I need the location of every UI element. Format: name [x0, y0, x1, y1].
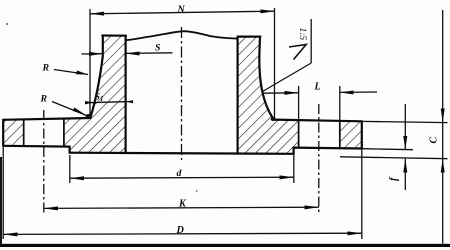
- L extension line left: [298, 86, 300, 120]
- arrow R lower leader: [73, 108, 87, 116]
- R leader lower: [52, 102, 87, 116]
- bore wall left: [124, 36, 126, 153]
- d extension line left: [69, 155, 71, 183]
- f dimension line lower shaft: [404, 159, 406, 190]
- neck outer wall left (vertical + 1:5 taper): [91, 36, 103, 117]
- centre line (dash-dot): [181, 27, 183, 160]
- flange bottom face right: [294, 147, 362, 150]
- flange top face right: [274, 120, 362, 122]
- svg-text:f: f: [389, 176, 400, 181]
- bolt hole centre line right (dash-dot): [318, 104, 320, 213]
- svg-text:1:5: 1:5: [297, 28, 307, 41]
- arrow N right: [261, 9, 275, 13]
- D dimension line: [3, 233, 362, 234]
- D extension line right: [361, 150, 363, 240]
- photo scan left dark edge: [0, 157, 2, 244]
- bore wall right: [237, 37, 239, 154]
- arrow N left: [90, 12, 104, 16]
- svg-text:S: S: [155, 43, 161, 54]
- svg-text:R: R: [42, 63, 50, 74]
- speck top left: [6, 23, 8, 25]
- taper leader line: [263, 63, 312, 92]
- D extension line left: [2, 147, 4, 239]
- bolt hole right: left edge: [298, 121, 300, 148]
- arrow d right: [280, 175, 294, 179]
- taper symbol reference line: [310, 19, 312, 63]
- arrow K left: [44, 206, 58, 210]
- speck mid lower: [196, 190, 198, 192]
- arrow C bottom (points up): [441, 159, 445, 173]
- arrow f top (points down): [403, 136, 407, 150]
- flange bottom face left: [3, 145, 69, 148]
- raised face bottom: [70, 153, 294, 154]
- hatched section: right flange strip: [340, 121, 362, 149]
- neck outer wall right (vertical + 1:5 taper curve): [259, 37, 273, 120]
- L dimension line left part: [262, 92, 299, 94]
- d extension line right: [293, 155, 295, 183]
- raised face step left: [68, 147, 70, 153]
- C extension line top: [362, 121, 448, 122]
- photo scan bottom dark band: [0, 244, 450, 247]
- hatched section: left flange strip: [3, 120, 24, 146]
- fillet blob right hub base: [271, 117, 276, 121]
- fillet blob left hub base: [86, 114, 92, 118]
- L extension line right: [339, 86, 341, 121]
- bolt hole left: left edge: [23, 120, 25, 146]
- arrow D right: [348, 231, 362, 235]
- flange top face left: [3, 118, 90, 120]
- svg-text:N: N: [177, 5, 186, 16]
- hatched section: left hub/ring between bolt hole and bore: [64, 36, 126, 154]
- break wavy line at weld end: [126, 31, 238, 40]
- svg-text:L: L: [314, 82, 321, 93]
- arrow K right: [305, 205, 319, 209]
- taper symbol glyph: [289, 45, 306, 60]
- arrow S left (points right): [89, 52, 103, 56]
- S1 dimension line: [89, 102, 131, 103]
- neck wall top edge left: [102, 34, 126, 36]
- arrow L left (points right): [285, 91, 299, 95]
- N extension line right: [274, 8, 276, 120]
- d dimension line: [70, 177, 294, 178]
- arrow C top (points down): [441, 109, 445, 123]
- arrow S1 right (points left): [126, 100, 133, 103]
- K dimension line: [44, 207, 319, 208]
- arrow S1 left (points right): [85, 101, 94, 104]
- f dimension line upper shaft: [404, 104, 406, 150]
- bolt hole left: right edge: [63, 119, 65, 146]
- arrow R upper leader: [76, 71, 88, 75]
- arrow D left: [3, 232, 17, 236]
- arrow d left: [70, 176, 84, 180]
- f extension line top: [362, 149, 413, 150]
- arrow f bottom (points up): [403, 159, 407, 173]
- svg-text:D: D: [176, 225, 185, 236]
- C dimension line (long vertical at right): [442, 10, 444, 244]
- L dimension line right part: [340, 91, 377, 93]
- N extension line left: [89, 9, 91, 116]
- svg-text:C: C: [429, 137, 440, 144]
- arrow S right (points left): [126, 52, 140, 56]
- R leader upper: [54, 70, 88, 75]
- N dimension line: [90, 11, 275, 14]
- neck wall top edge right: [238, 35, 261, 37]
- flange left edge: [2, 120, 4, 146]
- raised face step right: [293, 148, 295, 154]
- C / f extension line bottom: [340, 157, 448, 159]
- bolt hole right: right edge: [339, 121, 341, 148]
- S dimension line right part: [126, 52, 173, 55]
- arrow L right (points left): [340, 91, 354, 95]
- S dimension line left part: [82, 53, 103, 55]
- bolt hole centre line left (dash-dot): [43, 110, 45, 213]
- hatched section: right hub/ring between bore and bolt hole: [238, 37, 299, 154]
- flange right edge: [361, 121, 363, 148]
- svg-text:K: K: [178, 199, 187, 210]
- svg-text:R: R: [40, 94, 48, 105]
